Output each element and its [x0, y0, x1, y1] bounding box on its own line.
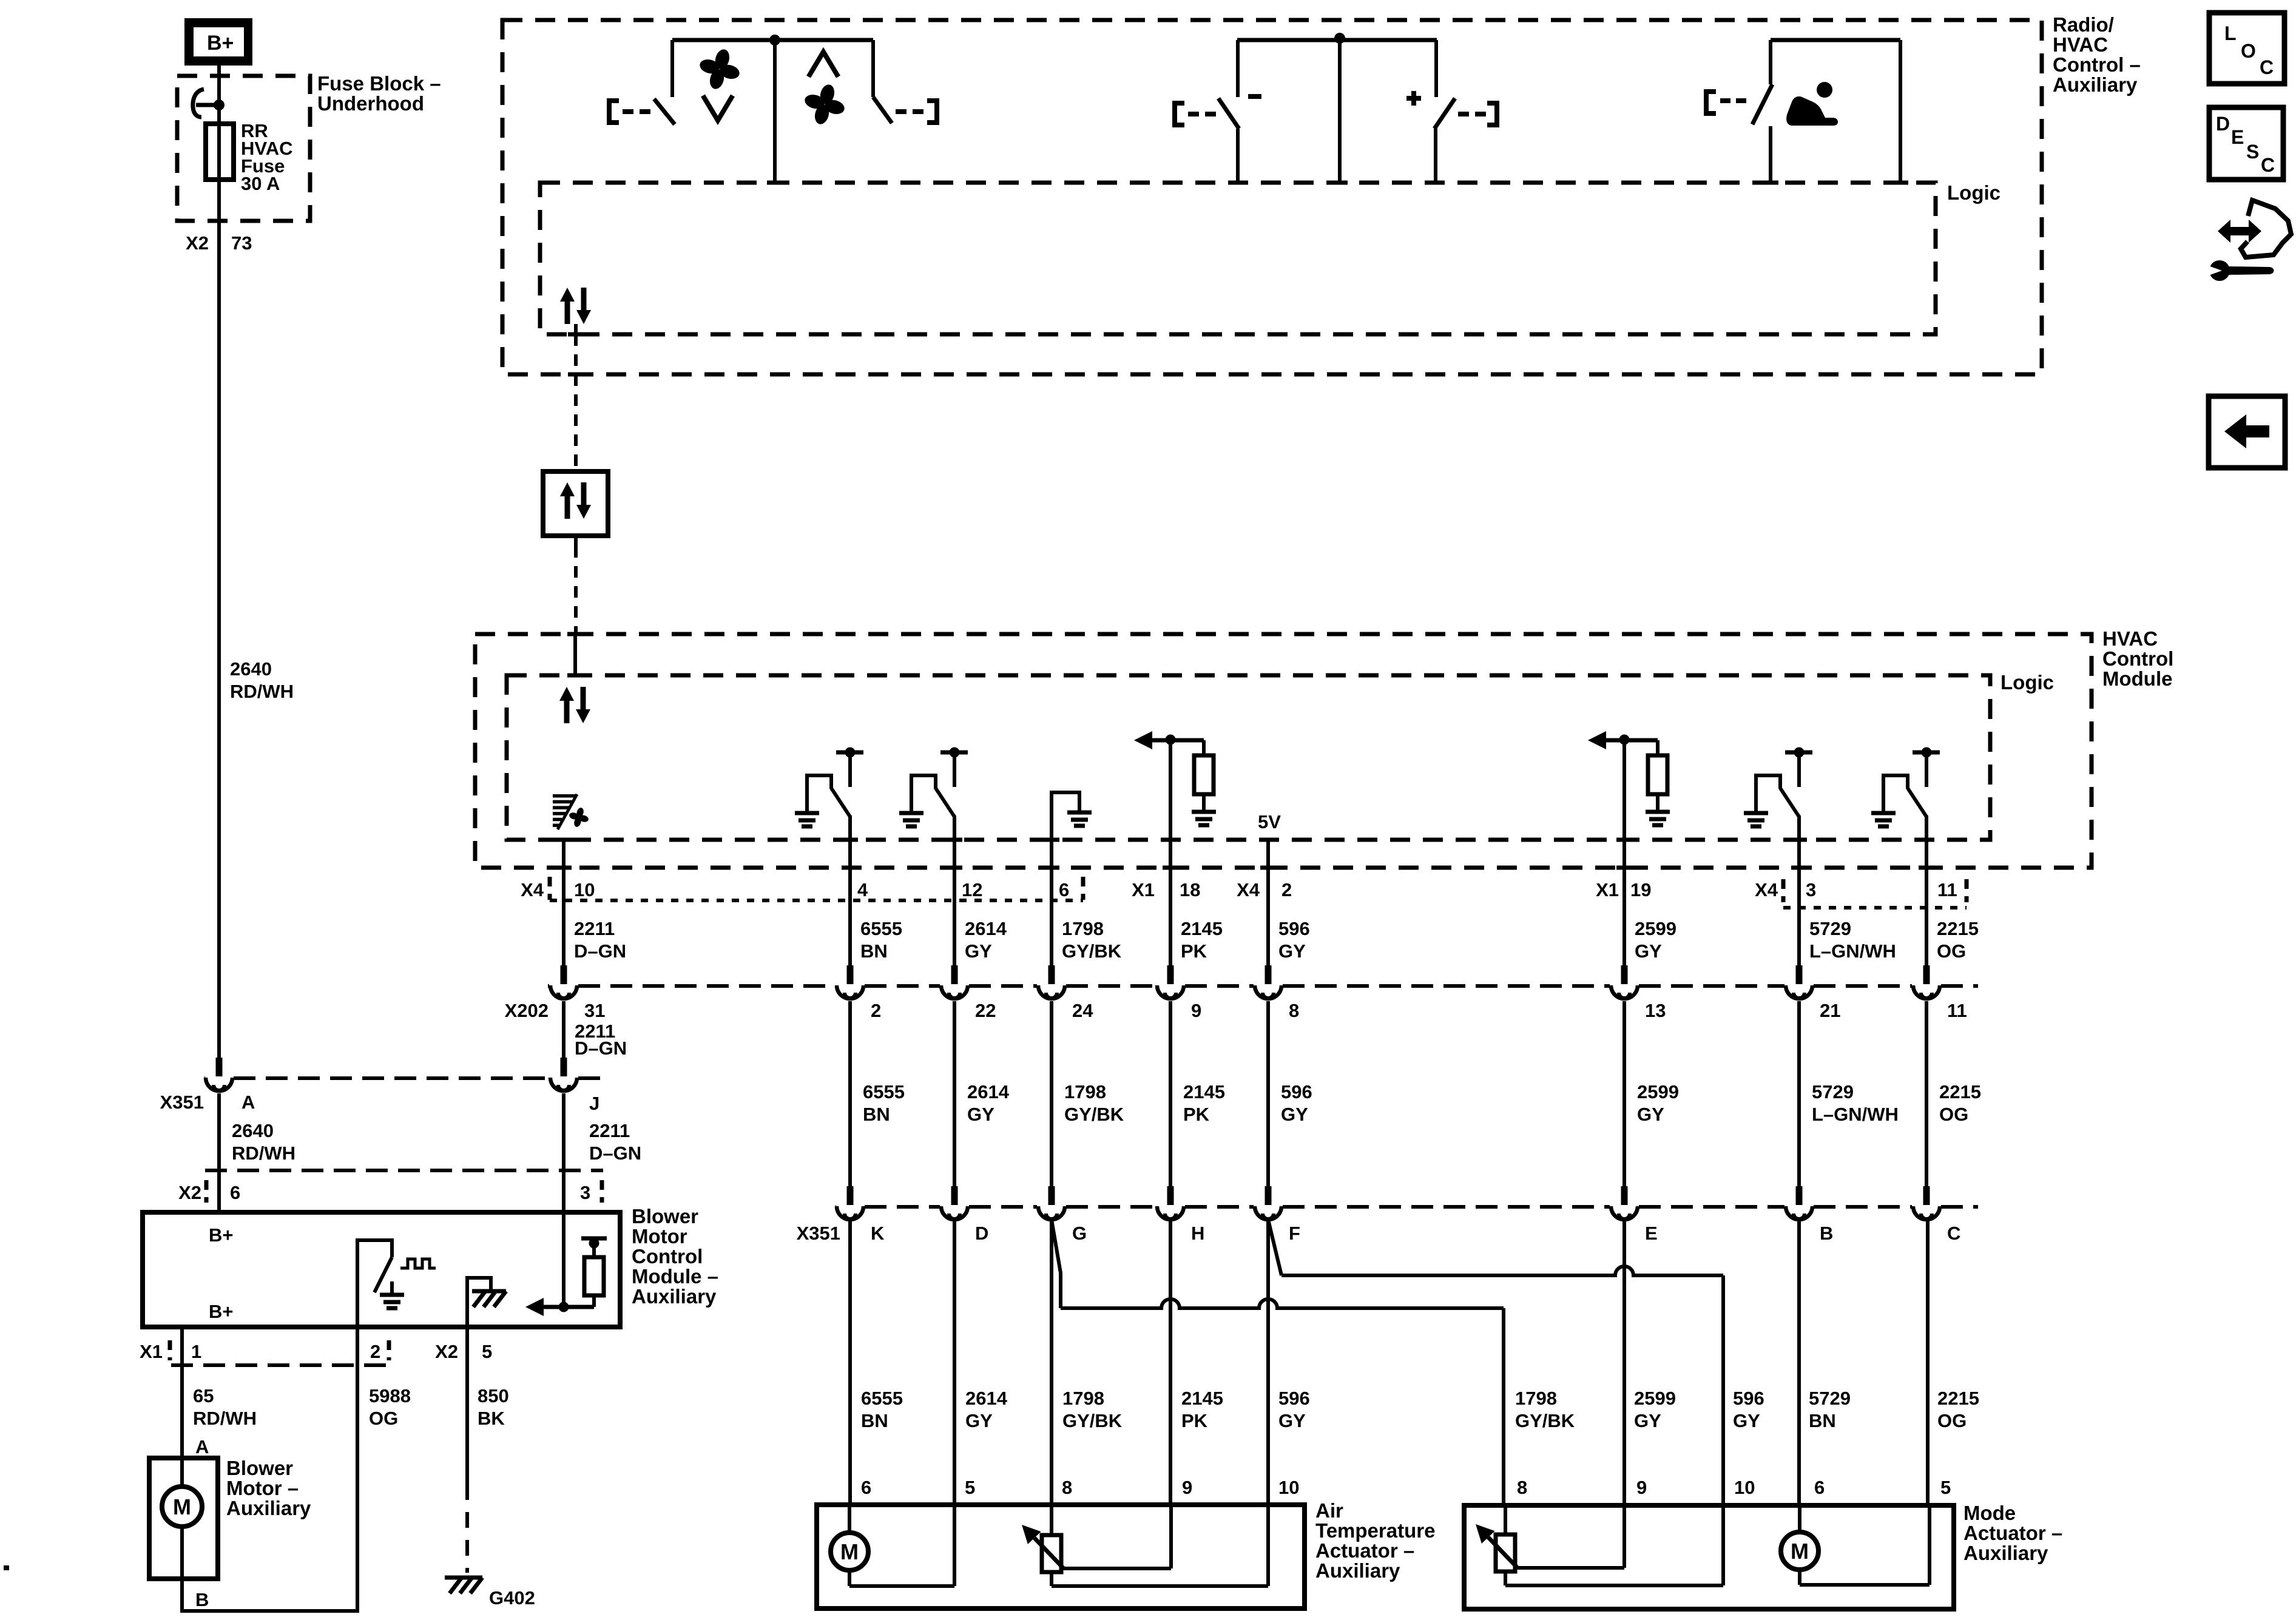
- svg-text:Air: Air: [1315, 1499, 1343, 1522]
- svg-text:2599: 2599: [1634, 1388, 1676, 1409]
- svg-text:HVAC: HVAC: [2102, 627, 2158, 650]
- svg-text:Auxiliary: Auxiliary: [1315, 1559, 1400, 1582]
- svg-text:6555: 6555: [863, 1081, 905, 1102]
- svg-text:L–GN/WH: L–GN/WH: [1809, 940, 1896, 962]
- svg-text:GY: GY: [967, 1104, 994, 1125]
- svg-text:M: M: [173, 1494, 191, 1519]
- svg-text:1798: 1798: [1062, 918, 1104, 939]
- svg-text:GY/BK: GY/BK: [1064, 1104, 1124, 1125]
- svg-text:6555: 6555: [860, 918, 902, 939]
- svg-text:6: 6: [1814, 1477, 1825, 1498]
- svg-text:Auxiliary: Auxiliary: [1963, 1542, 2048, 1564]
- svg-text:31: 31: [584, 1000, 605, 1021]
- svg-text:GY/BK: GY/BK: [1062, 940, 1122, 962]
- svg-text:1798: 1798: [1062, 1388, 1104, 1409]
- svg-text:8: 8: [1062, 1477, 1072, 1498]
- svg-text:5729: 5729: [1812, 1081, 1854, 1102]
- svg-text:10: 10: [1278, 1477, 1299, 1498]
- svg-text:2211: 2211: [589, 1120, 630, 1141]
- svg-text:3: 3: [580, 1182, 590, 1203]
- svg-text:13: 13: [1645, 1000, 1666, 1021]
- svg-text:GY: GY: [1281, 1104, 1308, 1125]
- svg-text:2640: 2640: [230, 658, 272, 680]
- svg-text:OG: OG: [1939, 1104, 1968, 1125]
- svg-text:2: 2: [370, 1341, 380, 1362]
- svg-text:OG: OG: [1937, 940, 1966, 962]
- svg-text:GY: GY: [965, 1410, 993, 1431]
- svg-text:BN: BN: [861, 1410, 888, 1431]
- svg-text:M: M: [840, 1539, 859, 1564]
- svg-text:11: 11: [1947, 1000, 1967, 1021]
- svg-text:Auxiliary: Auxiliary: [2053, 73, 2138, 96]
- svg-text:Auxiliary: Auxiliary: [226, 1497, 311, 1519]
- svg-text:S: S: [2246, 141, 2259, 163]
- svg-text:B: B: [195, 1589, 209, 1610]
- svg-text:30 A: 30 A: [241, 173, 280, 194]
- svg-text:596: 596: [1278, 918, 1310, 939]
- svg-text:1798: 1798: [1064, 1081, 1106, 1102]
- svg-text:G: G: [1072, 1223, 1087, 1244]
- svg-text:Motor: Motor: [632, 1225, 687, 1247]
- svg-text:Temperature: Temperature: [1315, 1519, 1435, 1542]
- svg-text:5: 5: [1940, 1477, 1951, 1498]
- svg-text:4: 4: [857, 879, 868, 900]
- svg-text:J: J: [589, 1093, 599, 1114]
- svg-text:2: 2: [1281, 879, 1292, 900]
- svg-text:6: 6: [861, 1477, 871, 1498]
- svg-text:8: 8: [1517, 1477, 1527, 1498]
- svg-text:2614: 2614: [965, 918, 1007, 939]
- svg-text:A: A: [195, 1436, 209, 1457]
- svg-text:O: O: [2241, 40, 2256, 62]
- svg-text:Actuator –: Actuator –: [1963, 1522, 2062, 1544]
- svg-text:RD/WH: RD/WH: [230, 681, 294, 702]
- svg-text:24: 24: [1072, 1000, 1093, 1021]
- svg-text:C: C: [2260, 56, 2274, 78]
- svg-text:19: 19: [1630, 879, 1651, 900]
- svg-text:Module: Module: [2102, 667, 2172, 690]
- svg-text:Module –: Module –: [632, 1265, 718, 1288]
- svg-text:C: C: [2261, 154, 2275, 176]
- svg-text:1: 1: [191, 1341, 201, 1362]
- svg-text:9: 9: [1182, 1477, 1192, 1498]
- svg-text:5: 5: [965, 1477, 975, 1498]
- svg-text:GY: GY: [1278, 940, 1306, 962]
- svg-text:GY/BK: GY/BK: [1062, 1410, 1123, 1431]
- svg-text:X1: X1: [1132, 879, 1155, 900]
- svg-text:H: H: [1191, 1223, 1204, 1244]
- svg-text:12: 12: [962, 879, 982, 900]
- svg-text:73: 73: [231, 232, 252, 254]
- svg-text:Motor –: Motor –: [226, 1477, 299, 1499]
- svg-text:OG: OG: [369, 1408, 398, 1429]
- svg-text:B: B: [1820, 1223, 1833, 1244]
- svg-text:Mode: Mode: [1963, 1502, 2016, 1524]
- svg-text:Control –: Control –: [2053, 53, 2141, 76]
- svg-text:Actuator –: Actuator –: [1315, 1539, 1414, 1562]
- svg-text:Control: Control: [2102, 647, 2173, 670]
- svg-text:OG: OG: [1937, 1410, 1967, 1431]
- svg-text:D: D: [2216, 113, 2230, 135]
- svg-text:2145: 2145: [1181, 1388, 1223, 1409]
- svg-text:Blower: Blower: [226, 1457, 293, 1479]
- svg-text:BN: BN: [860, 940, 888, 962]
- svg-text:6: 6: [1059, 879, 1069, 900]
- svg-text:Control: Control: [632, 1245, 703, 1268]
- svg-text:X1: X1: [1596, 879, 1619, 900]
- svg-text:E: E: [1645, 1223, 1658, 1244]
- svg-text:5729: 5729: [1809, 918, 1851, 939]
- svg-text:BK: BK: [478, 1408, 505, 1429]
- svg-text:F: F: [1289, 1223, 1300, 1244]
- svg-text:RD/WH: RD/WH: [193, 1408, 257, 1429]
- svg-text:L: L: [2224, 22, 2237, 44]
- svg-text:596: 596: [1278, 1388, 1310, 1409]
- svg-text:GY: GY: [965, 940, 992, 962]
- svg-text:GY: GY: [1634, 1410, 1661, 1431]
- svg-text:GY: GY: [1635, 940, 1662, 962]
- svg-text:2215: 2215: [1939, 1081, 1981, 1102]
- svg-text:GY: GY: [1733, 1410, 1760, 1431]
- svg-text:HVAC: HVAC: [2053, 33, 2108, 56]
- svg-text:596: 596: [1733, 1388, 1764, 1409]
- svg-text:5V: 5V: [1258, 811, 1281, 832]
- svg-text:PK: PK: [1183, 1104, 1210, 1125]
- svg-text:D–GN: D–GN: [574, 940, 626, 962]
- svg-text:GY: GY: [1278, 1410, 1306, 1431]
- svg-text:10: 10: [1734, 1477, 1755, 1498]
- svg-text:2640: 2640: [232, 1120, 274, 1141]
- svg-text:1798: 1798: [1515, 1388, 1557, 1409]
- svg-text:2599: 2599: [1637, 1081, 1679, 1102]
- svg-text:2145: 2145: [1181, 918, 1223, 939]
- svg-text:11: 11: [1937, 879, 1957, 900]
- svg-text:10: 10: [574, 879, 595, 900]
- svg-text:X4: X4: [1237, 879, 1260, 900]
- svg-text:9: 9: [1191, 1000, 1201, 1021]
- svg-text:5988: 5988: [369, 1385, 411, 1406]
- svg-text:850: 850: [478, 1385, 509, 1406]
- svg-text:2215: 2215: [1937, 918, 1979, 939]
- svg-text:6: 6: [230, 1182, 240, 1203]
- svg-text:C: C: [1947, 1223, 1960, 1244]
- svg-text:2211: 2211: [574, 918, 615, 939]
- svg-text:Underhood: Underhood: [317, 92, 424, 115]
- svg-text:B+: B+: [209, 1224, 234, 1246]
- svg-text:K: K: [871, 1223, 885, 1244]
- svg-text:L–GN/WH: L–GN/WH: [1812, 1104, 1899, 1125]
- svg-text:18: 18: [1180, 879, 1200, 900]
- svg-text:2614: 2614: [965, 1388, 1008, 1409]
- svg-text:G402: G402: [489, 1587, 535, 1609]
- svg-text:6555: 6555: [861, 1388, 903, 1409]
- svg-text:9: 9: [1636, 1477, 1647, 1498]
- svg-text:PK: PK: [1181, 940, 1207, 962]
- svg-text:X351: X351: [160, 1092, 204, 1113]
- svg-text:X4: X4: [521, 879, 544, 900]
- svg-text:M: M: [1791, 1539, 1809, 1564]
- svg-text:X202: X202: [505, 1000, 549, 1021]
- svg-text:BN: BN: [1809, 1410, 1836, 1431]
- svg-text:GY: GY: [1637, 1104, 1664, 1125]
- svg-text:X351: X351: [797, 1223, 840, 1244]
- svg-text:BN: BN: [863, 1104, 890, 1125]
- svg-text:5729: 5729: [1809, 1388, 1851, 1409]
- svg-text:Logic: Logic: [2001, 671, 2054, 694]
- svg-text:3: 3: [1806, 879, 1816, 900]
- svg-text:2599: 2599: [1635, 918, 1676, 939]
- svg-text:22: 22: [975, 1000, 996, 1021]
- svg-text:65: 65: [193, 1385, 214, 1406]
- svg-text:596: 596: [1281, 1081, 1312, 1102]
- svg-text:X2: X2: [435, 1341, 458, 1362]
- svg-text:X2: X2: [186, 232, 209, 254]
- svg-text:2: 2: [871, 1000, 881, 1021]
- svg-text:D–GN: D–GN: [589, 1143, 641, 1164]
- svg-text:X2: X2: [178, 1182, 201, 1203]
- svg-text:B+: B+: [209, 1301, 234, 1322]
- svg-text:RD/WH: RD/WH: [232, 1143, 295, 1164]
- svg-text:21: 21: [1820, 1000, 1840, 1021]
- svg-text:PK: PK: [1181, 1410, 1208, 1431]
- svg-text:2614: 2614: [967, 1081, 1010, 1102]
- svg-text:5: 5: [482, 1341, 492, 1362]
- svg-text:E: E: [2231, 126, 2244, 148]
- svg-text:GY/BK: GY/BK: [1515, 1410, 1575, 1431]
- svg-text:8: 8: [1289, 1000, 1299, 1021]
- svg-text:D: D: [975, 1223, 988, 1244]
- svg-text:Radio/: Radio/: [2053, 13, 2114, 36]
- svg-text:A: A: [241, 1092, 255, 1113]
- svg-text:2145: 2145: [1183, 1081, 1225, 1102]
- svg-text:X4: X4: [1755, 879, 1778, 900]
- svg-text:Fuse Block –: Fuse Block –: [317, 72, 441, 95]
- svg-text:2215: 2215: [1937, 1388, 1979, 1409]
- svg-text:Logic: Logic: [1947, 181, 2001, 204]
- svg-text:X1: X1: [140, 1341, 163, 1362]
- svg-text:D–GN: D–GN: [575, 1038, 627, 1059]
- svg-text:Blower: Blower: [632, 1205, 698, 1227]
- svg-text:Auxiliary: Auxiliary: [632, 1285, 717, 1308]
- svg-text:B+: B+: [207, 32, 234, 55]
